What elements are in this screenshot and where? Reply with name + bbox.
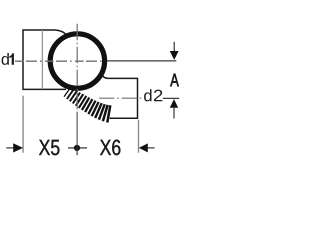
extension line right [138,120,140,153]
dimension node dot [74,145,80,151]
A reference line on main axis [107,60,176,62]
label X5 [39,140,59,155]
outlet spigot d2 [103,75,138,118]
d2 reference line right [163,97,179,99]
label A [170,74,179,87]
horizontal centerline d1 axis [15,60,104,62]
X5 dimension line and arrow [6,147,13,149]
socket depth line [41,30,43,89]
A dimension up arrow [170,99,178,108]
X6 dimension arrow and line [139,143,148,152]
corrugated flexible bend [64,87,110,123]
label d2 [144,89,162,101]
vertical centerline main axis [76,24,78,112]
socket ring d1 [50,34,104,88]
label X6 [100,140,120,156]
fitting body outline (left socket housing) [23,30,67,89]
vertical axis lower segment to dimension dot [76,112,78,145]
extension line left [22,96,24,153]
d2 axis centerline [99,97,141,99]
vertical stub below dot [76,145,78,156]
label d1 [2,53,14,65]
dimension line stubs at node [68,147,87,149]
A dimension down arrow [173,42,175,52]
